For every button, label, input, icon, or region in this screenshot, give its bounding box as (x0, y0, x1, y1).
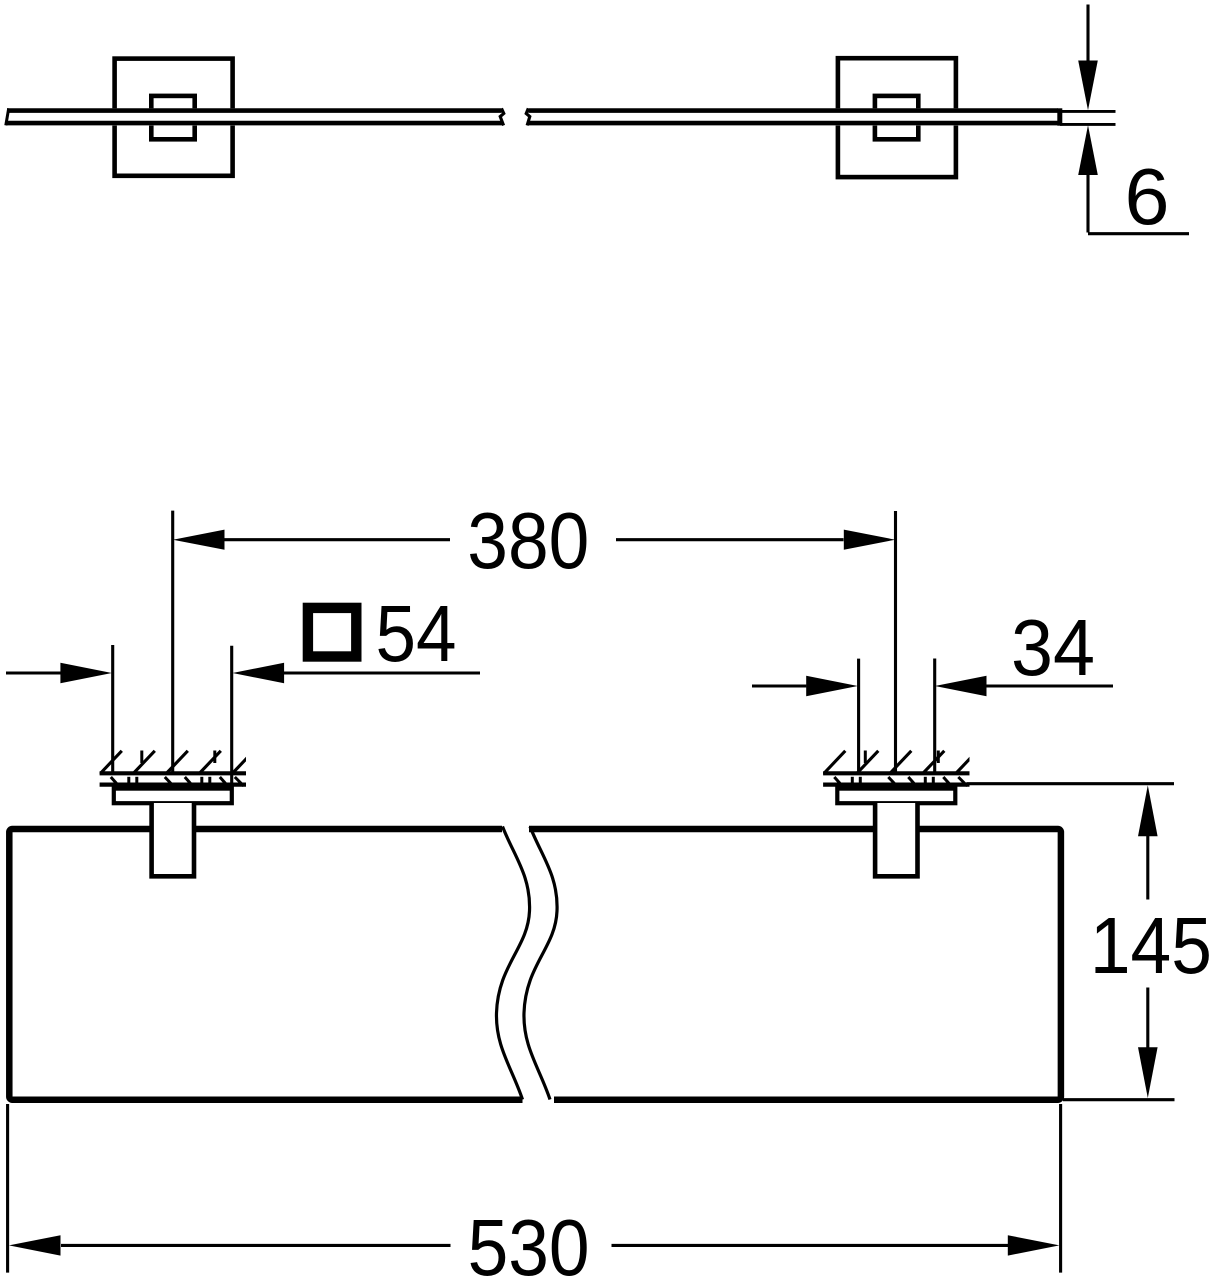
shelf slab break edge left (500, 108, 504, 125)
glass shelf outline (front view) (9, 829, 1061, 1100)
dim 145 arrow up (1138, 785, 1158, 836)
dimension 34 line left (752, 684, 806, 687)
dim 530 line right (612, 1244, 1009, 1247)
dim 6 lower leader (1086, 175, 1089, 233)
ext line 530 left (6, 1104, 9, 1273)
dimension 54 line left (6, 671, 61, 674)
shelf slab bottom edge left segment (6, 121, 503, 126)
shelf slab left end cap (6, 108, 9, 125)
dimension 530 (8, 1104, 1061, 1273)
shelf slab right end cap (1057, 108, 1062, 125)
right inner boss (top view) (875, 96, 918, 139)
dimension 380 line left (224, 538, 450, 541)
dimension 380 line right (616, 538, 844, 541)
svg-text:380: 380 (467, 496, 589, 585)
dim 6 extension line bottom (1060, 123, 1116, 126)
dimension 145 (967, 784, 1175, 1100)
dim 6 upper leader (1086, 5, 1089, 62)
extension line 54 right (230, 646, 233, 787)
dim 6 upper arrow (1078, 61, 1098, 111)
extension line 380 left (171, 511, 174, 772)
shelf slab break edge right (526, 108, 530, 125)
dimension 380 arrow left (173, 530, 225, 550)
dim 6 lower arrow (1078, 125, 1098, 175)
dimension 54 arrow left (60, 663, 112, 683)
square symbol for 54 (308, 608, 356, 657)
svg-text:530: 530 (468, 1203, 590, 1280)
dim 145 line upper (1146, 836, 1149, 900)
dim 145 line lower (1146, 988, 1149, 1048)
dimension 54 arrow right (233, 663, 285, 683)
dim 145 arrow down (1138, 1047, 1158, 1098)
dimension 34 arrow right (935, 676, 987, 696)
ext line 530 right (1059, 1104, 1062, 1273)
glass shelf slab (top view) white body (4, 108, 1063, 125)
svg-text:145: 145 (1090, 901, 1212, 990)
dim 530 line left (61, 1244, 451, 1247)
left mounting square (top view) (115, 59, 233, 176)
dimension 6 (glass thickness) (1060, 5, 1189, 234)
dimension 34 arrow left (806, 676, 858, 696)
break gap top (502, 820, 529, 837)
break line left (496, 827, 529, 1100)
dim 6 horizontal leader (1088, 232, 1189, 235)
right mounting square (top view) (838, 58, 956, 177)
extension line 380 right (894, 511, 897, 772)
svg-text:6: 6 (1125, 152, 1170, 241)
shelf slab bottom edge right segment (528, 121, 1059, 126)
ext line 145 top (967, 782, 1175, 785)
left bracket assembly (front view) (100, 751, 254, 877)
dimension 380 arrow right (844, 530, 896, 550)
extension line 34 right (933, 659, 936, 773)
dim 530 arrow left (9, 1235, 61, 1255)
shelf slab top edge right segment (529, 108, 1059, 113)
svg-text:54: 54 (376, 589, 457, 678)
dimension 54 leader right (284, 671, 480, 674)
right bracket assembly (front view) (823, 751, 977, 877)
shelf slab top edge left segment (7, 108, 502, 113)
dim 6 extension line top (1060, 110, 1116, 113)
break gap bottom (523, 1093, 555, 1109)
dim 530 arrow right (1008, 1235, 1060, 1255)
break line right (524, 827, 557, 1100)
dimension 34 leader right (986, 684, 1113, 687)
left inner boss (top view) (151, 96, 194, 139)
ext line 145 bottom (1063, 1098, 1175, 1101)
extension line 34 left (857, 659, 860, 772)
extension line 54 left (111, 645, 114, 772)
svg-text:34: 34 (1011, 603, 1095, 692)
